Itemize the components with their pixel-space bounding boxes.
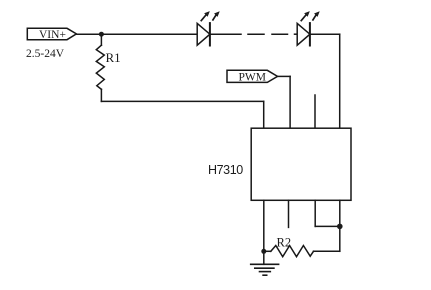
- wire to LED D2 anode: [295, 33, 298, 35]
- LED D2: [297, 12, 319, 46]
- wire D1 cathode (solid part): [210, 33, 241, 35]
- node A junction dot: [99, 32, 104, 37]
- pin 1 wire to ground: [263, 200, 265, 264]
- wire node A to LED D1 anode: [101, 33, 197, 35]
- LED D1: [197, 12, 219, 46]
- pin 2 stub bottom (unconnected): [288, 200, 290, 227]
- svg-text:H7310: H7310: [208, 163, 243, 177]
- input tag PWM: [227, 70, 278, 82]
- pin 3 wire: [314, 200, 316, 226]
- svg-text:R2: R2: [277, 236, 292, 250]
- svg-text:R1: R1: [106, 50, 121, 65]
- wire PWM to IC pin (top): [278, 75, 291, 77]
- wire R1 bottom to IC pin (top-left): [101, 100, 263, 102]
- wire dashed segment between LEDs: [248, 33, 264, 35]
- ground: [251, 264, 279, 275]
- node C junction dot: [337, 224, 343, 230]
- svg-text:2.5-24V: 2.5-24V: [26, 48, 65, 60]
- pin 4 wire down: [339, 200, 341, 251]
- resistor R1: [96, 34, 104, 101]
- wire D2 cathode to right corner: [310, 33, 340, 35]
- node B junction dot: [261, 249, 266, 254]
- wire VIN+ to node A: [76, 33, 101, 35]
- svg-text:PWM: PWM: [239, 72, 266, 84]
- pin stub top (unconnected): [314, 95, 316, 128]
- svg-text:VIN+: VIN+: [39, 29, 66, 41]
- wire right side down to IC pin (top): [339, 34, 341, 128]
- op-amp U1 H7310 IC body: [251, 128, 351, 200]
- resistor R2: [264, 246, 340, 257]
- input tag VIN+: [27, 28, 76, 39]
